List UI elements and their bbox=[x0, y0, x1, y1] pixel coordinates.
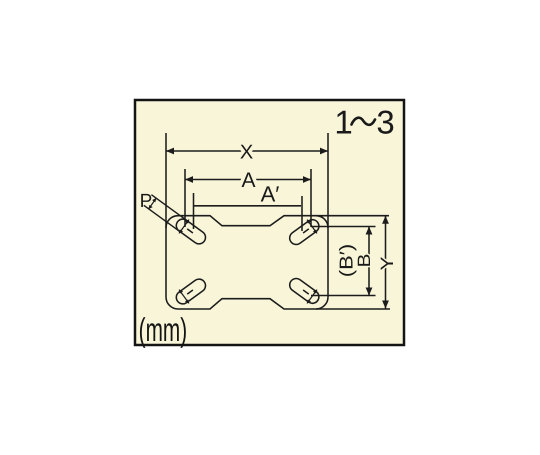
svg-text:X: X bbox=[240, 141, 253, 163]
extension line: plate left edge extended up (X) bbox=[165, 133, 167, 228]
svg-text:Y: Y bbox=[378, 256, 398, 270]
extension line: B top bbox=[311, 226, 376, 228]
slot TR centre dash bbox=[303, 229, 309, 233]
svg-text:3: 3 bbox=[376, 104, 394, 141]
extension line: B bottom bbox=[311, 295, 376, 297]
dimension X line bbox=[166, 150, 328, 152]
slot bottom-right bbox=[287, 276, 321, 306]
slot BL centre dash bbox=[187, 290, 193, 294]
slot TL cross arrow bbox=[179, 220, 189, 233]
extension line: A' left bbox=[193, 193, 195, 229]
extension line: A right bbox=[310, 169, 312, 227]
svg-text:A′: A′ bbox=[261, 182, 280, 207]
slot top-left bbox=[174, 217, 208, 247]
slot BL cross arrow bbox=[179, 290, 189, 303]
extension line: plate right edge extended up (X) bbox=[327, 133, 329, 228]
label 1~3 bbox=[334, 104, 394, 141]
dimension A' line bbox=[194, 205, 301, 207]
svg-text:B: B bbox=[355, 253, 375, 267]
dimension A line bbox=[185, 179, 311, 181]
svg-text:(mm): (mm) bbox=[139, 311, 187, 348]
extension line: plate bottom edge extended right (Y) bbox=[316, 308, 390, 310]
svg-text:1: 1 bbox=[334, 104, 352, 141]
slot bottom-left bbox=[174, 277, 208, 307]
plate outline bbox=[166, 216, 328, 309]
svg-text:(B′): (B′) bbox=[336, 244, 357, 277]
slot top-right bbox=[287, 217, 321, 247]
dimension P arrow bbox=[148, 198, 156, 209]
slot TR cross arrow bbox=[307, 220, 317, 233]
dimension Y line bbox=[385, 216, 387, 309]
panel frame bbox=[135, 100, 404, 345]
slot BR cross arrow bbox=[307, 290, 317, 303]
dimension B line bbox=[368, 227, 370, 296]
svg-text:P: P bbox=[140, 191, 153, 212]
extension line: A' right bbox=[301, 196, 303, 231]
slot BR centre dash bbox=[303, 290, 309, 294]
svg-text:A: A bbox=[241, 169, 255, 192]
slot TL centre dash bbox=[187, 229, 193, 233]
extension line: plate top edge extended right (Y) bbox=[316, 215, 389, 217]
P extension side lines (from TL slot) bbox=[151, 195, 187, 222]
extension line: A left bbox=[184, 169, 186, 227]
